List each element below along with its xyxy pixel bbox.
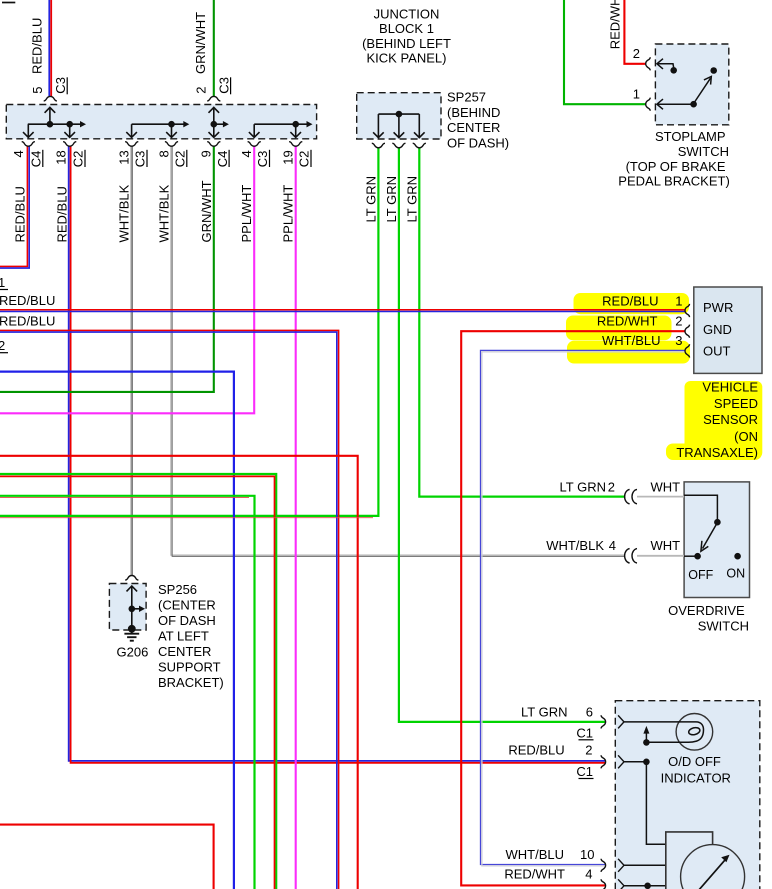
svg-text:LT GRN: LT GRN [404,176,419,222]
svg-text:C2: C2 [173,151,188,168]
svg-text:OVERDRIVE: OVERDRIVE [668,603,745,618]
splice SP256 (dashed box) [109,584,146,631]
wire PPL/WHT exit pin4 C3 to left edge [0,147,254,414]
wire PPL/WHT exit pin19 C2 to bottom [295,147,297,889]
svg-text:1: 1 [675,293,682,308]
svg-text:SWITCH: SWITCH [698,619,749,634]
svg-text:GND: GND [703,322,732,337]
svg-text:C3: C3 [53,77,68,94]
wire LT GRN left edge down to bottom (x254) [0,496,255,889]
splice SP257 (dashed box) [357,93,441,139]
svg-text:PEDAL BRACKET): PEDAL BRACKET) [618,174,730,189]
wire RED/BLU pin5 C3 (top entry) [49,0,51,96]
wire RED left edge to bottom (x213) [0,825,214,889]
svg-text:VEHICLE: VEHICLE [702,380,758,395]
label STOPLAMP SWITCH [618,129,730,188]
connector cups junction block entries [44,96,57,101]
svg-text:OF DASH: OF DASH [158,613,216,628]
svg-text:LT GRN: LT GRN [560,479,606,494]
svg-text:C3: C3 [255,151,270,168]
labels O/D OFF indicator wires [504,704,594,881]
wire RED stripe of GRN/RED pair down to bottom (x274) [0,476,275,889]
svg-text:4: 4 [585,867,592,882]
red fringe under LT GRN wires [0,497,249,499]
wire WHT into overdrive switch pin2 [637,496,684,498]
svg-text:JUNCTION: JUNCTION [374,7,440,22]
svg-text:BRACKET): BRACKET) [158,675,224,690]
highlighter patch wire labels VSS [566,293,690,364]
svg-text:2: 2 [0,338,5,353]
splice SP257 internals [373,114,425,138]
junction block internals group2 [126,124,183,137]
overdrive switch internals [684,495,717,556]
wire GRN/WHT exit pin9 C4 to left edge [0,147,214,392]
svg-text:PPL/WHT: PPL/WHT [281,185,296,243]
svg-text:SENSOR: SENSOR [703,412,758,427]
svg-text:WHT: WHT [651,479,681,494]
junction block internals group3 [209,107,224,137]
svg-text:O/D OFF: O/D OFF [668,754,721,769]
svg-text:C3: C3 [133,151,148,168]
svg-text:OF DASH): OF DASH) [447,135,509,150]
svg-text:RED/WHT: RED/WHT [504,867,565,882]
connector cups stoplamp pins [646,57,651,70]
ground G206 [124,634,139,641]
svg-text:5: 5 [30,86,45,93]
inline connector overdrive pin2 [625,489,630,503]
wire GRN/WHT pin2 C3 (top entry) [213,0,215,96]
junction block internals group1 [23,107,81,137]
connector cup SP256 entry [125,576,138,581]
svg-text:C2: C2 [297,151,312,168]
svg-text:13: 13 [117,150,132,164]
svg-text:LT GRN: LT GRN [363,176,378,222]
labels VSS wires [597,293,683,348]
svg-text:WHT/BLK: WHT/BLK [157,184,172,242]
svg-text:1: 1 [633,87,640,102]
svg-text:18: 18 [54,150,69,164]
svg-text:AT LEFT: AT LEFT [158,629,209,644]
wire RED/BLU exit pin18 C2 to O/D OFF indicator pin2 [69,146,605,763]
vertical labels junction exits pins/connectors [11,150,312,167]
wire LT GRN left edge down to bottom (x276) [0,474,276,889]
vehicle speed sensor box [694,287,762,373]
svg-text:LT GRN: LT GRN [521,704,567,719]
svg-text:RED/BLU: RED/BLU [30,18,45,74]
svg-text:LT GRN: LT GRN [384,176,399,222]
svg-text:SP257: SP257 [447,90,486,105]
svg-text:SP256: SP256 [158,582,197,597]
connector cups SP257 exits [372,143,385,148]
connector cups O/D indicator and speedometer pins [601,715,606,728]
svg-text:1: 1 [0,275,5,290]
svg-text:SWITCH: SWITCH [678,144,729,159]
wire LT GRN SP257 exit3 to overdrive switch pin2 [419,148,625,497]
highlighter patch VEHICLE SPEED SENSOR [666,381,762,460]
wire WHT/BLK exit pin13 C3 to SP256 [131,147,132,576]
connector cups VSS pins [685,304,690,317]
wire RED/BLU exit pin4 C4 to left edge [0,146,29,268]
svg-text:ON: ON [726,567,745,581]
svg-text:CENTER: CENTER [158,644,211,659]
svg-text:(CENTER: (CENTER [158,598,216,613]
svg-text:19: 19 [281,150,296,164]
svg-text:RED/BLU: RED/BLU [13,186,28,242]
wire RED/WHT stoplamp switch pin2 [624,0,646,64]
svg-text:(ON: (ON [734,429,758,444]
stoplamp switch internals [657,59,711,110]
svg-text:3: 3 [675,333,682,348]
svg-text:(TOP OF BRAKE: (TOP OF BRAKE [626,159,726,174]
labels OFF ON [688,567,745,583]
speedometer assembly [666,832,713,889]
svg-text:RED/BLU: RED/BLU [0,313,55,328]
svg-text:SPEED: SPEED [714,396,758,411]
svg-text:KICK PANEL): KICK PANEL) [367,50,447,65]
svg-text:2: 2 [194,86,209,93]
overdrive switch box [684,482,749,598]
label JUNCTION BLOCK 1 [362,7,451,66]
inline connector overdrive pin4 [625,549,630,563]
wire BLU left edge down to bottom [0,372,234,889]
svg-text:C3: C3 [216,77,231,94]
wire LT GRN SP257 exit2 to O/D OFF indicator pin6 [399,148,605,722]
svg-text:SUPPORT: SUPPORT [158,660,221,675]
svg-text:C4: C4 [29,151,44,168]
svg-text:TRANSAXLE): TRANSAXLE) [676,445,758,460]
svg-text:RED/BLU: RED/BLU [508,743,564,758]
wire RED/BLU left edge to VSS pin1 PWR [0,310,685,312]
wire RED left edge down to bottom [0,456,358,889]
wire WHT into overdrive switch pin4 [637,555,684,557]
label VEHICLE SPEED SENSOR [676,380,758,460]
svg-text:C4: C4 [215,151,230,168]
wire GRN stoplamp switch pin1 [564,0,646,104]
wire RED/WHT VSS pin2 GND down to speedometer pin4 [461,331,685,885]
svg-text:2: 2 [633,46,640,61]
svg-text:9: 9 [199,150,214,157]
svg-text:6: 6 [586,704,593,719]
svg-text:INDICATOR: INDICATOR [661,770,731,785]
svg-text:4: 4 [609,538,616,553]
wire WHT/BLU VSS pin3 OUT down to speedometer pin10 [481,350,686,866]
svg-text:C2: C2 [71,151,86,168]
svg-text:4: 4 [239,150,254,157]
splice SP256 internals [127,586,140,633]
svg-text:2: 2 [675,313,682,328]
page corner mark top-left [2,2,15,4]
svg-text:(BEHIND LEFT: (BEHIND LEFT [362,36,451,51]
stoplamp switch box (dashed) [655,44,728,125]
svg-text:C1: C1 [576,725,593,740]
svg-text:WHT: WHT [651,538,681,553]
male pins inside cluster box [618,715,624,728]
svg-text:CENTER: CENTER [447,120,500,135]
label OVERDRIVE SWITCH [668,603,749,634]
svg-text:G206: G206 [117,645,149,660]
svg-text:RED/BLU: RED/BLU [55,186,70,242]
junction block 1 (dashed box) [6,105,316,139]
svg-text:10: 10 [580,847,594,862]
wire WHT/BLK exit pin8 C2 to overdrive switch pin4 [171,147,624,557]
label O/D OFF INDICATOR [661,754,731,785]
svg-text:WHT/BLU: WHT/BLU [602,333,661,348]
wire LT GRN SP257 exit1 to left edge [0,148,378,516]
svg-text:2: 2 [608,479,615,494]
svg-text:2: 2 [585,743,592,758]
svg-text:PWR: PWR [703,300,733,315]
svg-text:PPL/WHT: PPL/WHT [239,185,254,243]
wire RED/BLU left edge down to bottom [0,330,339,889]
svg-text:WHT/BLU: WHT/BLU [506,847,565,862]
svg-text:RED/WHT: RED/WHT [608,0,623,49]
svg-text:STOPLAMP: STOPLAMP [655,129,726,144]
instrument cluster box (dashed) [615,701,760,889]
labels overdrive switch wires [546,479,616,553]
svg-text:GRN/WHT: GRN/WHT [199,180,214,242]
svg-text:OFF: OFF [688,568,713,582]
svg-text:RED/BLU: RED/BLU [0,293,55,308]
svg-text:8: 8 [156,150,171,157]
svg-text:C1: C1 [576,764,593,779]
svg-text:4: 4 [11,150,26,157]
svg-text:RED/WHT: RED/WHT [597,313,658,328]
svg-text:GRN/WHT: GRN/WHT [193,12,208,74]
svg-text:RED/BLU: RED/BLU [602,293,658,308]
svg-text:WHT/BLK: WHT/BLK [117,184,132,242]
svg-text:BLOCK 1: BLOCK 1 [379,21,434,36]
junction block internals group4 [249,124,307,137]
svg-text:WHT/BLK: WHT/BLK [546,538,604,553]
O/D OFF indicator lamp [676,714,713,751]
svg-text:OUT: OUT [703,344,731,359]
svg-text:(BEHIND: (BEHIND [447,105,500,120]
